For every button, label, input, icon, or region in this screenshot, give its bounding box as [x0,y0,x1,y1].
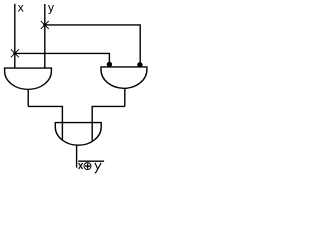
wire: left AND gate output stub [27,89,29,106]
node: inversion dot, right gate left input [107,62,112,67]
wire: OR gate output stub [76,145,78,167]
node: inversion dot, right gate right input [137,62,142,67]
svg-text:x: x [18,1,24,15]
node: tap junction X on x line [11,49,19,57]
label: output x XOR y with overline [78,161,104,173]
overline [78,160,104,162]
gate: bottom OR gate [55,123,101,146]
circled plus symbol [84,163,91,170]
wire: input x vertical line [14,4,16,68]
node: tap junction X on y line [41,21,49,29]
wire: branch from x tap to right gate left input [15,53,110,64]
letter x [79,163,83,169]
wire: branch from y tap to top-right corner [45,25,140,65]
gate: left AND gate (inputs x, y) [5,68,52,89]
wire: right stub to OR gate right input [92,106,125,141]
svg-text:y: y [48,1,54,15]
gate: right AND gate (inverted inputs) [101,67,147,88]
wire: right AND gate output stub [124,88,126,106]
wire: left stub to OR gate left input [28,106,62,140]
letter y [95,163,102,173]
wire: input y vertical line [44,4,46,68]
